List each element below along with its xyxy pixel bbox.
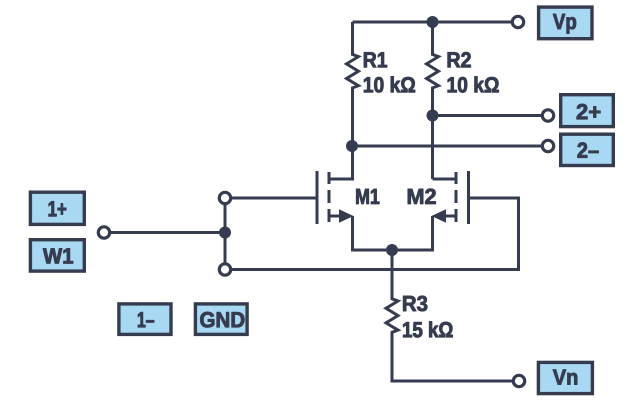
junction top rail / R2 drain branch: [427, 16, 439, 28]
wire input to gate column: [110, 231, 226, 234]
label box GND: [195, 304, 247, 335]
terminal circle bottom rail branch: [219, 264, 230, 275]
terminal circle Vn: [513, 375, 524, 386]
value label 15 kΩ of R3: [403, 321, 452, 337]
junction node 2- / R1 / M1 drain: [346, 140, 358, 152]
value label 10 kΩ of R2: [448, 77, 499, 93]
wire M1 gate: [232, 197, 316, 200]
label box 1-: [119, 304, 171, 335]
label box Vp: [539, 7, 592, 39]
terminal circle input 1+/W1: [98, 227, 109, 238]
terminal circle Vp: [512, 16, 523, 27]
label R2: [448, 52, 471, 67]
label R1: [364, 52, 387, 67]
label box 2+: [561, 95, 614, 127]
wire node 2+: [433, 114, 543, 117]
label R3: [403, 296, 427, 311]
junction common sources / R3 top: [386, 244, 398, 256]
wire M2 gate loop via bottom rail: [231, 198, 519, 270]
junction gate column: [219, 227, 231, 239]
resistor R1: [347, 22, 359, 146]
value label 10 kΩ of R1: [364, 77, 415, 93]
label box W1: [30, 240, 84, 271]
terminal circle 2+: [542, 110, 553, 121]
wire gate column vertical: [224, 204, 227, 265]
junction 2+ on R2 branch: [427, 110, 439, 122]
transistor M1: [317, 146, 392, 250]
wire top rail to Vp terminal: [353, 21, 513, 24]
label M1: [356, 189, 379, 204]
terminal circle M1 gate branch: [219, 192, 230, 203]
resistor R2: [427, 22, 439, 179]
label box Vn: [538, 362, 592, 393]
label box 1+: [30, 192, 84, 224]
label box 2-: [561, 134, 614, 165]
terminal circle 2-: [542, 140, 553, 151]
label M2: [408, 189, 436, 204]
resistor R3: [386, 250, 514, 381]
wire node 2-: [352, 145, 543, 148]
transistor M2: [392, 171, 469, 250]
